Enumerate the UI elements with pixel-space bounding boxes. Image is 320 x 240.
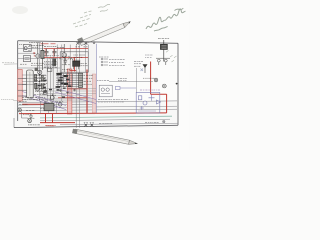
fuse lamp F4 (90, 123, 94, 127)
note text right of legend (134, 60, 143, 62)
wire lavender vertical (96, 44, 98, 113)
tuner section labels (29, 42, 41, 44)
treble potentiometer P2 (50, 94, 54, 100)
tube labels right of ladder (84, 74, 93, 76)
junction blobs mid band (43, 86, 66, 98)
left column extra labels (35, 91, 46, 93)
electrolytic can C4 (53, 59, 56, 66)
wires across left section (18, 48, 60, 84)
legend text (109, 59, 125, 61)
red highlighted wire top rail (34, 44, 89, 72)
balance potentiometer P1 (43, 89, 47, 95)
pencil check marks right (166, 50, 177, 62)
stub wires across pink band (18, 78, 27, 96)
wire gray vertical right (136, 68, 138, 92)
shielded cable purple runs (22, 90, 96, 110)
power transformer T3 (44, 101, 54, 111)
legend connector list (101, 58, 108, 66)
bottom text row power (28, 124, 40, 126)
chassis wire bus horizontals (18, 101, 178, 125)
red highlighted wire main B+ rail (19, 62, 167, 126)
coupling capacitor C8 (52, 49, 56, 57)
extra vertical stubs AF board (58, 74, 73, 87)
wire stub pilot to bus (22, 112, 28, 118)
phone jack J1 (28, 119, 32, 123)
highlighted supply bus pink band left (18, 70, 22, 102)
output box inner labels (62, 55, 70, 57)
antenna coil L1 (160, 40, 167, 62)
bypass tube V3 (35, 87, 39, 91)
terminal on top border (93, 42, 95, 44)
tube shield can (27, 70, 34, 98)
AF driver tube V2 (62, 44, 67, 72)
pot labels (41, 89, 47, 91)
junction blobs (57, 73, 69, 88)
dropping resistor R5 (34, 75, 36, 82)
phono input lead (4, 63, 18, 65)
small caps in AF region (59, 89, 76, 95)
left column fine detail rows (35, 77, 46, 79)
drawn pencil object bottom (72, 129, 137, 145)
IF amplifier tube V1 (36, 42, 40, 70)
bottom edge line power box (13, 118, 15, 128)
level meter M1 (154, 78, 158, 82)
power supply area labels (19, 101, 27, 103)
bottom center tick marks (99, 122, 112, 124)
channel label row center (98, 99, 128, 101)
fuse lamp F1 (76, 42, 80, 47)
tuner front-end box (23, 45, 31, 62)
sub text right of AF board (97, 80, 109, 82)
crystal component (115, 86, 136, 89)
output stage enclosure (60, 52, 88, 72)
IF transformer T1 (41, 42, 44, 70)
paper smudge top-left (12, 6, 28, 14)
pencil handwriting note top-center (73, 11, 92, 27)
rectifier pilot lamp (18, 108, 22, 112)
label row top-left of output box (57, 47, 64, 49)
bass potentiometer P3 (58, 103, 62, 107)
scan haze over dense regions (18, 42, 96, 102)
detector diode pair D1 D2 (156, 58, 170, 65)
bottom right jack symbol (163, 120, 165, 122)
bottom right label strip (145, 121, 159, 123)
detector tube V4 (38, 70, 42, 74)
muting switch arrow (143, 65, 147, 74)
left column terminal dots (39, 74, 46, 85)
wire teal speaker lead (40, 116, 172, 118)
trimmer block (35, 68, 38, 71)
tape output margin label (1, 98, 14, 100)
fuse lamp F3 (84, 123, 88, 127)
drawn pencil object top (77, 22, 130, 46)
highlighted supply bus pink band center (67, 69, 72, 114)
output transformer T2 (72, 60, 80, 69)
coupling capacitor C7 (44, 49, 48, 57)
terminal on right border (176, 83, 178, 85)
converter labels right (145, 54, 153, 56)
pencil handwriting note top-right (146, 8, 186, 31)
screen resistor R12 (64, 58, 74, 65)
meter label (143, 77, 154, 79)
pencil x mark blue (141, 69, 144, 72)
label row under caps (44, 55, 59, 57)
ground symbol power (29, 114, 33, 119)
highlighted supply bus pale band right-center (92, 74, 96, 113)
wire to meter (109, 80, 153, 82)
dual triode box right-center (99, 85, 112, 97)
labels right of shield can (36, 74, 46, 76)
fuse lamp F2 (84, 42, 88, 47)
mixer resistor stack left (35, 75, 44, 89)
pencil handwriting note top-middle (98, 4, 110, 11)
AF board dark component cluster (57, 77, 72, 91)
grid coupling caps left (38, 80, 47, 93)
interstage cap C9 (48, 68, 52, 71)
schematic frame border (14, 41, 178, 128)
fine wire texture mid band (40, 89, 96, 100)
rectifier labels (23, 114, 31, 116)
stereo adapter label purple (140, 89, 160, 91)
AF board wire bundle horizontals (56, 74, 83, 87)
power verticals (40, 101, 56, 114)
output meter M2 (162, 84, 166, 88)
vertical interconnect wires (40, 42, 89, 128)
output stage labels (74, 54, 85, 56)
antenna label above border (158, 38, 169, 40)
stereo adapter sub-circuit box (136, 92, 160, 113)
resistor ladder bank (79, 73, 83, 87)
